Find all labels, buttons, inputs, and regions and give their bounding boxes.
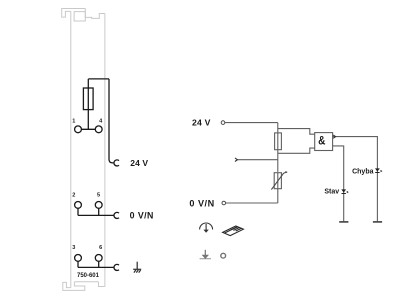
0V bar Stav xyxy=(339,221,348,223)
clamp arc earth xyxy=(114,264,119,270)
module left edge xyxy=(70,11,72,287)
bottom right hook xyxy=(99,282,105,287)
clamp arc 0V/N xyxy=(114,212,119,218)
svg-text:Stav: Stav xyxy=(324,189,339,196)
module right edge xyxy=(104,14,106,287)
left internal circuit xyxy=(75,79,119,271)
pin 1 xyxy=(75,126,82,133)
earth symbol xyxy=(133,262,141,273)
right schematic wires xyxy=(225,123,378,222)
wire fuse top to right xyxy=(88,78,109,80)
icon power jumper contact (arc with down arrow) xyxy=(200,223,213,233)
wire fuse to varistor xyxy=(277,150,279,172)
module outline 750-601 housing profile xyxy=(62,9,105,291)
0V bar Chyba xyxy=(373,221,382,223)
wire pin5 stub xyxy=(98,208,100,215)
wire middle input xyxy=(237,159,277,161)
svg-text:Chyba: Chyba xyxy=(352,169,374,176)
wire pin2 stub xyxy=(77,208,79,215)
wire 24V input xyxy=(225,122,278,124)
pin 6 xyxy=(95,255,102,262)
wire varistor to 0V xyxy=(277,189,279,203)
icon insertion down arrow xyxy=(200,250,211,259)
wire AND output 1 to Chyba xyxy=(333,137,378,222)
terminal circle 0V/N xyxy=(222,201,226,205)
icon circle marker xyxy=(221,253,226,258)
icon jumper comb xyxy=(223,226,244,236)
wire AND output 2 to Stav xyxy=(333,146,344,222)
wire tap above fuse to AND input 1 xyxy=(278,129,315,135)
AND gate box xyxy=(315,133,333,151)
wire down into fuse xyxy=(277,123,279,133)
chevron AND output xyxy=(333,135,335,138)
svg-text:5: 5 xyxy=(97,192,100,198)
clamp arc 24V xyxy=(114,160,119,166)
svg-text:0 V/N: 0 V/N xyxy=(130,211,154,221)
wire pin3 stub xyxy=(77,261,79,267)
LED Chyba xyxy=(375,168,382,172)
pin 2 xyxy=(75,202,82,209)
svg-text:750-601: 750-601 xyxy=(77,272,99,279)
fuse F2 xyxy=(275,133,282,150)
fuse F1 xyxy=(83,88,93,110)
pin 3 xyxy=(75,255,82,262)
top inner latch rectangle xyxy=(74,12,85,21)
wire down to 24V clamp xyxy=(109,79,114,163)
wire 0V/N row xyxy=(78,214,114,216)
svg-text:3: 3 xyxy=(72,245,75,251)
chevron middle input xyxy=(235,158,237,162)
svg-text:0 V/N: 0 V/N xyxy=(189,199,214,209)
svg-text:1: 1 xyxy=(72,119,75,125)
wire earth row xyxy=(78,266,114,268)
top right contour xyxy=(85,9,105,19)
varistor RV1 xyxy=(271,172,287,190)
pin 4 xyxy=(95,126,102,133)
top latch hook xyxy=(62,9,86,18)
LED Stav xyxy=(341,189,348,193)
wire pin6 stub xyxy=(98,261,100,267)
wire fuse vertical xyxy=(87,79,89,129)
terminal circle 24V xyxy=(221,121,225,125)
wire pins 1-4 xyxy=(78,128,99,130)
wire 0V input xyxy=(226,202,278,204)
svg-text:4: 4 xyxy=(99,119,103,125)
wire tap below fuse to AND input 2 xyxy=(278,148,315,153)
pin 5 xyxy=(95,202,102,209)
svg-text:24 V: 24 V xyxy=(130,158,148,168)
module bottom line xyxy=(74,281,98,283)
svg-text:2: 2 xyxy=(72,192,75,198)
svg-text:6: 6 xyxy=(99,245,102,251)
svg-text:&: & xyxy=(318,135,325,148)
svg-text:24 V: 24 V xyxy=(192,117,211,127)
bottom left foot xyxy=(63,282,85,291)
